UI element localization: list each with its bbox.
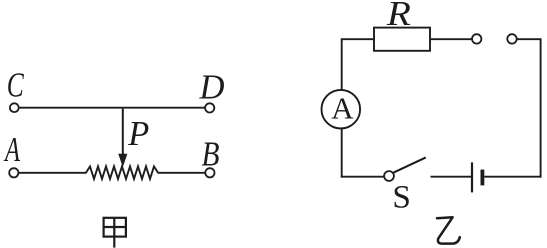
wire left side lower (341, 129, 343, 178)
svg-text:A: A (331, 91, 354, 126)
switch pivot (384, 171, 394, 181)
svg-text:S: S (392, 180, 411, 216)
svg-text:A: A (4, 130, 21, 169)
open terminal left (472, 34, 481, 43)
resistor AB zigzag (86, 166, 158, 179)
svg-text:D: D (199, 67, 225, 106)
wire battery to right corner (484, 176, 541, 178)
wire top-left corner (342, 39, 374, 90)
wire C-D (19, 107, 205, 109)
wire switch to battery (431, 176, 472, 178)
label P (127, 114, 149, 153)
battery positive plate (long) (471, 162, 473, 192)
terminal D (205, 103, 214, 112)
resistor R box (374, 28, 430, 51)
svg-text:P: P (127, 114, 149, 153)
label R (386, 0, 411, 33)
wire bottom-left to switch (341, 176, 384, 178)
wire resistor to B (158, 172, 206, 174)
svg-text:C: C (7, 66, 24, 105)
wire right terminal to corner and down (517, 39, 541, 177)
node B (202, 135, 220, 174)
node D (199, 67, 225, 106)
terminal C (10, 103, 19, 112)
terminal B (205, 168, 214, 177)
label jia (caption of left figure) (104, 218, 126, 248)
ammeter A1 (322, 90, 361, 129)
node C (7, 66, 24, 105)
label S (392, 180, 411, 216)
switch lever (394, 157, 426, 172)
node A (4, 130, 21, 169)
wire A to resistor (19, 172, 87, 174)
terminal A (9, 168, 18, 177)
battery negative plate (short) (480, 170, 484, 186)
slider arrow P (118, 109, 127, 167)
svg-text:B: B (202, 135, 220, 174)
wire box to left terminal (430, 38, 472, 40)
open terminal right (507, 34, 516, 43)
label yi (caption of right figure) (437, 217, 460, 243)
